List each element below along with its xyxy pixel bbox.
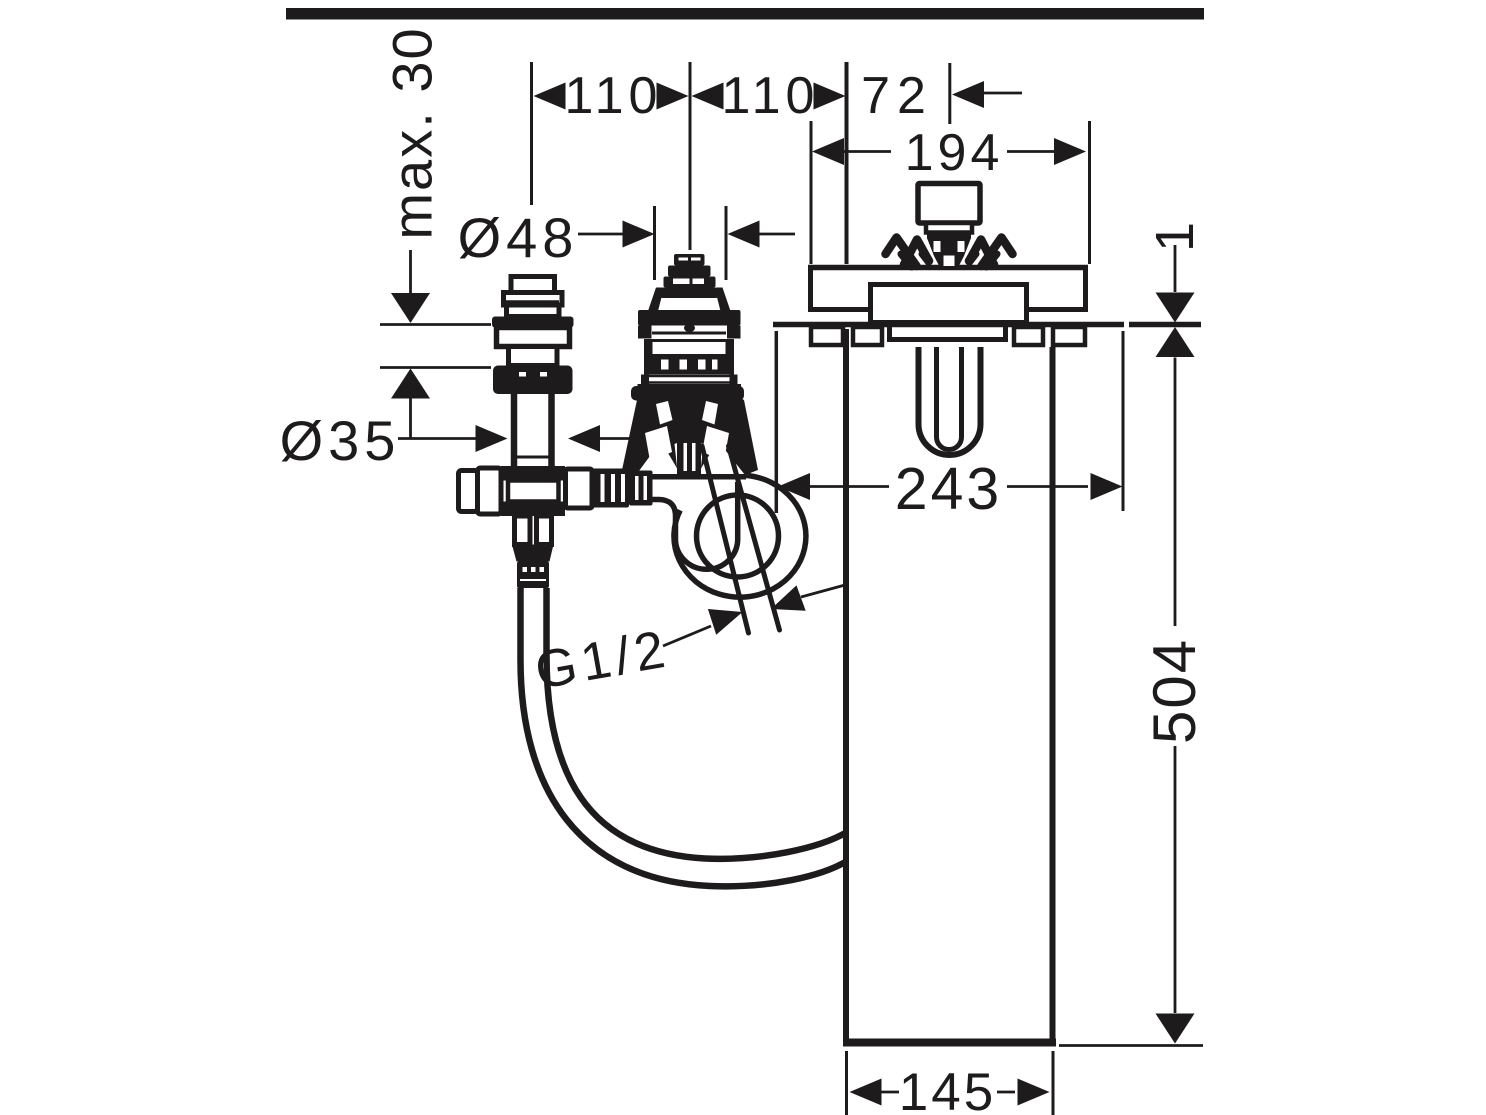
spider leg stub inner left bbox=[922, 254, 929, 263]
cartridge ear right bbox=[714, 386, 744, 401]
cartridge trapezoid side left bbox=[648, 288, 664, 312]
dim 110 shared extension line middle bbox=[689, 62, 692, 250]
spider white slot left bbox=[934, 241, 941, 252]
dim 145 line right bbox=[997, 1091, 1015, 1094]
hose loop outer arc bbox=[674, 475, 806, 597]
dim 194 extension line right bbox=[1088, 121, 1091, 264]
svg-text:194: 194 bbox=[905, 124, 1004, 182]
cartridge band 3 bbox=[664, 277, 716, 288]
dim 194 arrow left bbox=[812, 138, 844, 165]
dim G1/2 arrow first bbox=[708, 599, 747, 635]
svg-text:504: 504 bbox=[1141, 638, 1208, 744]
dim 110 first arrow left bbox=[534, 83, 566, 110]
spider leg inner left bbox=[904, 240, 929, 265]
dim O35 arrow right pointing bbox=[476, 425, 508, 452]
splay white slivers center bbox=[675, 441, 685, 467]
cartridge center column bbox=[677, 440, 701, 474]
dim O48 tail line bbox=[759, 233, 795, 236]
dim G1/2 leader line bbox=[663, 626, 711, 646]
dim max.30 upper reference line bbox=[380, 323, 491, 326]
spout shank outer bbox=[919, 347, 981, 455]
spout dark band bbox=[927, 231, 971, 239]
spout boss underside bbox=[887, 327, 1008, 340]
spider white center bbox=[944, 256, 955, 267]
svg-text:Ø35: Ø35 bbox=[280, 409, 401, 472]
cartridge splay mass bbox=[622, 397, 758, 476]
dim 243 extension line right bbox=[1122, 331, 1125, 511]
valve tube bbox=[514, 394, 552, 466]
cartridge wide band bbox=[638, 384, 742, 397]
valve T left coupling inner bbox=[478, 468, 502, 514]
spider leg stub outer left bbox=[901, 254, 912, 267]
dim O35 tail line bbox=[600, 437, 637, 440]
dim O35 leader line bbox=[398, 437, 477, 440]
spider white slot right bbox=[958, 241, 965, 252]
dim 110/72 extension line right bbox=[845, 62, 849, 264]
dim 1 arrow down bbox=[1156, 293, 1195, 323]
dim O48 arrow left pointing bbox=[728, 221, 760, 248]
dim max.30 lower reference line bbox=[380, 366, 491, 369]
cartridge slotted band bbox=[644, 357, 734, 375]
dim 72 extension line right bbox=[948, 63, 951, 124]
deck left edge bbox=[808, 265, 813, 311]
dim 243 line right bbox=[1007, 485, 1088, 488]
dim 145 extension line left bbox=[845, 1051, 848, 1115]
spider leg stub inner right bbox=[970, 254, 977, 263]
dim O48 extension line right bbox=[725, 206, 728, 280]
dim O48 leader line bbox=[578, 233, 624, 236]
tub left wall bbox=[843, 329, 849, 1042]
dim 145 arrow left bbox=[850, 1079, 882, 1106]
valve collar body bbox=[497, 328, 570, 347]
cartridge top knob bbox=[674, 254, 705, 266]
deck top line bbox=[808, 265, 1088, 271]
spout handle bbox=[918, 184, 980, 224]
tub right wall bbox=[1050, 347, 1056, 1042]
hose loop inner circle bbox=[697, 495, 779, 577]
cartridge thin band bbox=[641, 375, 649, 385]
deck foot outer left bbox=[811, 327, 843, 345]
valve taper band bbox=[512, 545, 554, 562]
dim 110 first arrow right bbox=[657, 83, 689, 110]
dim 72 tail line bbox=[984, 92, 1022, 95]
sweep hose outer edge bbox=[521, 588, 848, 886]
dim 243 arrow right bbox=[1091, 473, 1123, 500]
hose coupling second nut bbox=[629, 471, 653, 506]
valve lower legs bbox=[515, 516, 531, 545]
splay white window upper right bbox=[702, 401, 718, 425]
dim 194 extension line left bbox=[810, 121, 813, 264]
hose coupling nut ridged bbox=[592, 469, 629, 508]
dim O48 arrow right pointing bbox=[623, 221, 655, 248]
dim 194 line right bbox=[1007, 150, 1054, 153]
hose diagonal line 2 bbox=[729, 446, 780, 630]
tub rim line bbox=[773, 322, 1124, 328]
dim 110 second arrow right bbox=[814, 83, 846, 110]
dim max.30 arrow up bbox=[391, 369, 430, 399]
dim O35 arrow left pointing bbox=[568, 425, 600, 452]
spout spider body bbox=[927, 238, 971, 270]
dim 72 arrow outside right bbox=[952, 81, 984, 108]
spider leg outer left bbox=[886, 238, 917, 267]
sweep hose inner edge bbox=[547, 588, 848, 859]
dim 194 arrow right bbox=[1054, 138, 1086, 165]
valve top cap bbox=[511, 277, 555, 293]
cartridge trapezoid side right bbox=[715, 288, 731, 312]
cartridge band 4 bbox=[661, 288, 719, 299]
valve T right coupling bbox=[566, 469, 593, 508]
svg-text:110: 110 bbox=[565, 67, 663, 125]
dim 504 line lower bbox=[1174, 746, 1177, 1013]
horizontal hose bottom line with U coil bbox=[652, 482, 738, 569]
valve hose nut bbox=[517, 562, 549, 589]
dim max.30 leader line bbox=[409, 250, 412, 294]
hose diagonal line 1 bbox=[702, 446, 749, 633]
dim max.30 arrow down bbox=[391, 293, 430, 323]
dim 145 extension line right bbox=[1052, 1051, 1055, 1115]
svg-text:243: 243 bbox=[895, 456, 1002, 522]
svg-text:145: 145 bbox=[899, 1063, 996, 1115]
dim 243 arrow left bbox=[778, 473, 810, 500]
deck foot inner right bbox=[1014, 327, 1043, 345]
valve neck bbox=[509, 347, 558, 366]
dim 145 arrow right bbox=[1018, 1079, 1050, 1106]
cartridge flange bbox=[638, 310, 741, 326]
dim G1/2 arrow second bbox=[766, 585, 805, 621]
dim 110 second arrow left bbox=[692, 83, 724, 110]
dim O48 extension line left bbox=[653, 206, 656, 280]
spout shank inner bbox=[937, 347, 962, 450]
dim 243 extension line left bbox=[775, 331, 779, 513]
dim 145 line left bbox=[881, 1091, 899, 1094]
splay white window lower left bbox=[645, 426, 672, 461]
svg-text:max. 30: max. 30 bbox=[381, 26, 444, 239]
cartridge band 2 bbox=[668, 266, 711, 277]
spider leg stub outer right bbox=[987, 254, 998, 267]
cartridge ring section bbox=[644, 339, 653, 357]
spider leg inner right bbox=[969, 240, 994, 265]
deck inner flange bbox=[871, 285, 1027, 323]
valve band 2 bbox=[507, 305, 560, 317]
dim 504 bottom reference line bbox=[1059, 1044, 1203, 1047]
svg-text:72: 72 bbox=[861, 67, 933, 125]
valve band 1 bbox=[504, 293, 563, 306]
dim G1/2 tail line bbox=[801, 585, 845, 597]
spider leg outer right bbox=[982, 238, 1013, 267]
deck foot outer right bbox=[1053, 327, 1085, 345]
svg-text:110: 110 bbox=[722, 67, 820, 125]
deck bottom ledge left bbox=[808, 307, 871, 312]
tub bottom line bbox=[843, 1039, 1056, 1047]
deck bottom ledge right bbox=[1026, 307, 1088, 312]
valve T left coupling outer bbox=[459, 471, 478, 512]
valve T top band bbox=[501, 466, 565, 481]
dim 194 line left bbox=[844, 150, 891, 153]
dim 110 first extension line left bbox=[530, 62, 533, 205]
dim 243 line left bbox=[810, 485, 889, 488]
horizontal hose top line bbox=[652, 474, 746, 480]
cartridge ear left bbox=[631, 386, 661, 401]
splay white window upper left bbox=[656, 401, 673, 425]
dim max.30 lower leader line bbox=[409, 399, 412, 439]
deck right edge bbox=[1083, 265, 1088, 311]
rim reference segment right bbox=[1129, 322, 1201, 328]
cartridge knob white dashes bbox=[679, 258, 689, 261]
valve T bottom band bbox=[501, 502, 565, 517]
valve T middle bbox=[508, 481, 559, 502]
valve collar top ring bbox=[492, 317, 574, 328]
dim 504 line upper bbox=[1174, 358, 1177, 627]
spout neck band bbox=[926, 223, 972, 233]
deck foot inner left bbox=[853, 327, 882, 345]
dim 1 leader line bbox=[1174, 245, 1177, 292]
top header bar bbox=[286, 8, 1204, 20]
dim 504 arrow down bottom bbox=[1156, 1014, 1195, 1044]
dim 504 arrow up at rim bbox=[1156, 327, 1195, 357]
valve nut bbox=[493, 366, 573, 395]
svg-text:Ø48: Ø48 bbox=[458, 206, 579, 269]
splay white window lower right bbox=[702, 426, 729, 461]
cartridge below-flange tabs bbox=[638, 326, 652, 339]
